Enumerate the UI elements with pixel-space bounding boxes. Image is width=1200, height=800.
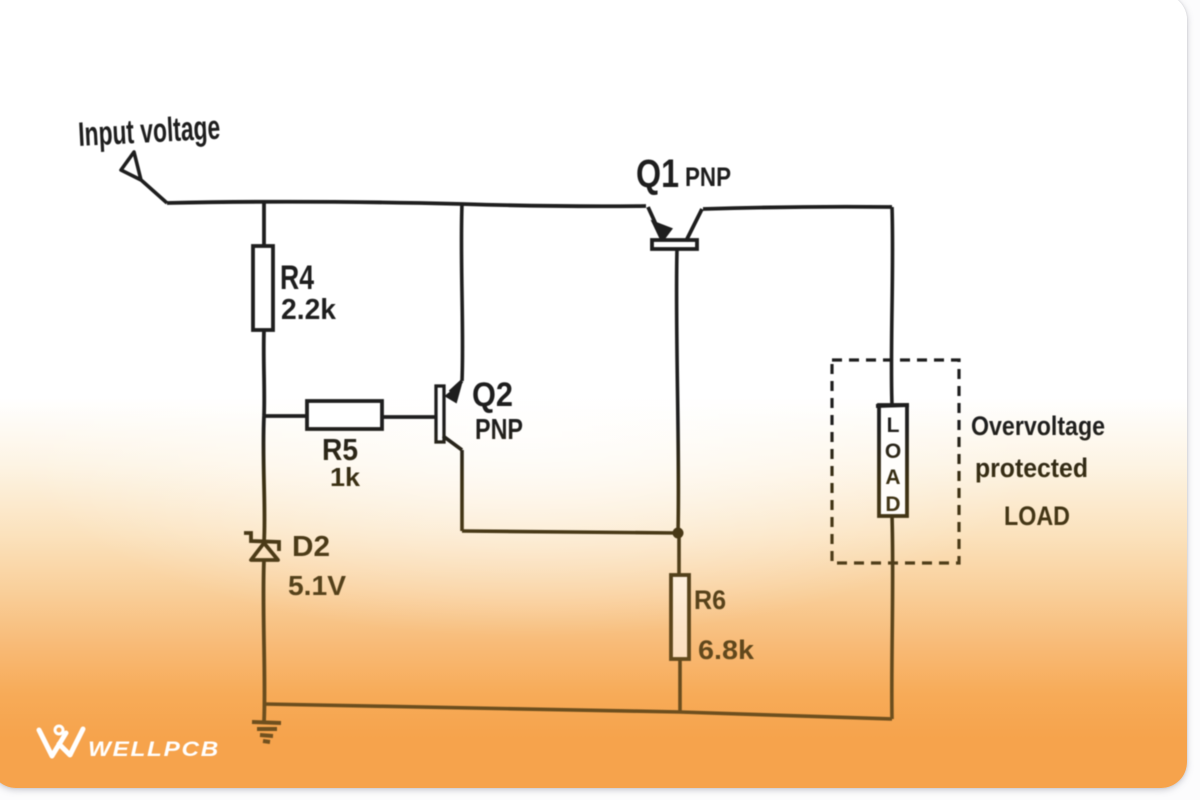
wire load branch down to LOAD <box>891 207 892 405</box>
svg-text:D2: D2 <box>292 531 330 563</box>
svg-text:6.8k: 6.8k <box>698 635 755 665</box>
wire Q2 collector down <box>460 450 464 531</box>
svg-text:Overvoltage: Overvoltage <box>971 411 1105 441</box>
wire top rail left (input to Q1 emitter) <box>167 202 646 207</box>
junction node dot <box>673 528 684 539</box>
svg-text:O: O <box>885 440 901 463</box>
wire base node down to D2 <box>263 416 264 542</box>
node input terminal (triangle) <box>121 152 167 203</box>
svg-text:R6: R6 <box>694 585 726 615</box>
transistor Q1 emitter wire with arrow <box>648 207 659 231</box>
wire LOAD to bottom rail <box>890 516 895 719</box>
wire D2 to ground <box>263 560 264 722</box>
wire top rail right (Q1 to load branch) <box>703 207 892 209</box>
wire bottom rail <box>264 704 892 719</box>
transistor Q2 emitter wire with arrow <box>450 381 462 392</box>
transistor Q2 base bar <box>436 386 444 442</box>
svg-text:L: L <box>887 414 900 437</box>
load box LOAD <box>879 405 907 516</box>
wire junction to R6 <box>677 533 681 575</box>
svg-text:PNP: PNP <box>475 414 523 446</box>
zener diode D2 anode triangle <box>251 543 278 560</box>
transistor Q1 collector-side wire <box>686 209 702 241</box>
svg-text:WELLPCB: WELLPCB <box>88 738 220 761</box>
wire top rail down to Q2 emitter <box>461 204 462 381</box>
svg-text:1k: 1k <box>330 462 361 492</box>
dashed protection boundary box <box>832 360 959 563</box>
svg-text:D: D <box>885 493 900 516</box>
svg-text:R4: R4 <box>280 259 314 297</box>
svg-text:5.1V: 5.1V <box>288 570 346 601</box>
ground <box>252 722 281 742</box>
svg-text:Q1: Q1 <box>636 152 679 196</box>
wire Q1 collector down to junction <box>677 250 679 533</box>
svg-text:Q2: Q2 <box>472 376 513 414</box>
svg-text:PNP: PNP <box>685 162 731 192</box>
wire R4 to base node <box>262 330 266 416</box>
svg-text:protected: protected <box>975 453 1088 483</box>
resistor R4 <box>253 246 273 330</box>
resistor R5 <box>307 401 382 429</box>
transistor Q1 base bar <box>652 240 697 249</box>
svg-text:LOAD: LOAD <box>1004 501 1070 531</box>
svg-text:A: A <box>885 466 900 489</box>
wire R6 to bottom rail <box>678 659 682 712</box>
wire R5 to Q2 base <box>382 415 436 419</box>
wire base node to R5 <box>264 414 307 418</box>
zener diode D2 cathode bar <box>244 533 279 551</box>
wire input rail down to R4 <box>262 202 266 246</box>
resistor R6 <box>671 575 689 659</box>
svg-text:Input voltage: Input voltage <box>77 109 221 154</box>
logo WELLPCB mark <box>39 726 83 756</box>
wire Q2 collector to junction <box>462 531 678 533</box>
svg-text:2.2k: 2.2k <box>281 294 337 326</box>
transistor Q2 collector wire <box>443 436 462 450</box>
